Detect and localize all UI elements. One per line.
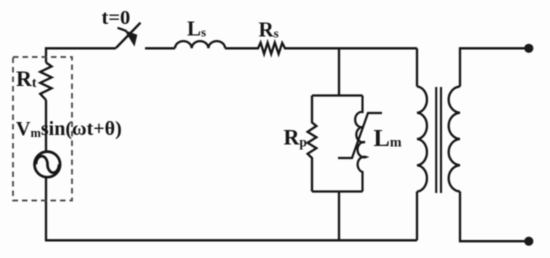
wire secondary top to terminal xyxy=(460,48,525,86)
transformer secondary coil xyxy=(449,87,460,192)
svg-text:t=0: t=0 xyxy=(102,7,131,29)
wire middle branch top xyxy=(338,48,340,95)
inductor Lm xyxy=(338,96,382,192)
wire primary branch down xyxy=(416,48,418,86)
inductor Ls xyxy=(175,41,225,48)
wire Rs to right corner xyxy=(286,47,417,49)
wire source to bottom xyxy=(45,178,47,241)
wire secondary bottom to terminal xyxy=(460,192,525,242)
source Vm sin(wt+theta) xyxy=(35,152,61,178)
svg-text:Ls: Ls xyxy=(187,17,206,41)
resistor Rs xyxy=(257,43,287,54)
wire primary to bottom xyxy=(416,192,418,241)
wire top-left from source to switch xyxy=(46,48,116,62)
wire parallel box top edge xyxy=(312,94,363,96)
svg-text:Rp: Rp xyxy=(284,125,307,150)
svg-text:Rt: Rt xyxy=(16,66,37,91)
transformer primary coil xyxy=(417,87,427,192)
wire switch to Ls xyxy=(145,47,175,49)
wire bottom main xyxy=(45,239,417,241)
terminal dot top xyxy=(524,44,533,53)
svg-text:Rs: Rs xyxy=(259,18,279,42)
wire parallel box bottom edge xyxy=(312,190,363,192)
terminal dot bottom xyxy=(524,237,533,246)
resistor Rt xyxy=(40,63,51,101)
resistor Rp xyxy=(308,96,317,192)
svg-text:Vmsin(ωt+θ): Vmsin(ωt+θ) xyxy=(16,118,122,140)
wire middle branch bottom xyxy=(338,192,340,241)
transformer core xyxy=(436,87,441,193)
svg-text:Lm: Lm xyxy=(374,125,402,152)
wire Rt to source xyxy=(45,100,47,151)
switch t=0 xyxy=(116,23,141,48)
wire Ls to Rs xyxy=(225,47,257,49)
dashed box around source xyxy=(13,57,72,201)
